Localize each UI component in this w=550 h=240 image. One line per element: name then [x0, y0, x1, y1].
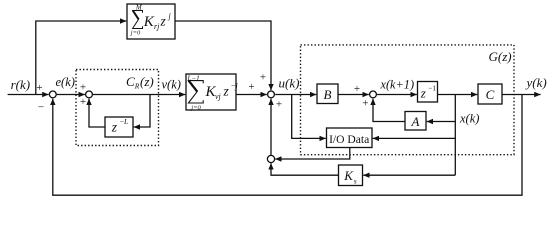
svg-text:rj: rj: [154, 22, 160, 31]
formula Kvj block: [187, 74, 239, 111]
block Ks: [339, 165, 363, 186]
svg-text:z: z: [111, 120, 118, 135]
svg-text:C: C: [126, 74, 135, 89]
svg-text:−j: −j: [231, 81, 239, 90]
wire Kvj output into S3: [236, 94, 267, 96]
formula Krj feedforward block: [130, 3, 172, 36]
svg-text:z: z: [420, 85, 426, 100]
block z^-L: [105, 117, 133, 137]
wire S5 output up into S3 bottom: [270, 99, 272, 155]
label block Ks: [343, 168, 357, 185]
svg-text:r(k): r(k): [11, 77, 31, 92]
wire x(k) branch down: [454, 95, 456, 176]
summing junction S3 u(k): [268, 91, 275, 98]
summing junction S2: [86, 91, 93, 98]
wire x(k) to Ks block: [363, 174, 455, 176]
svg-text:x(k+1): x(k+1): [380, 77, 415, 91]
wire r(k) input: [8, 94, 49, 96]
summing junction S4 state: [370, 91, 377, 98]
block Krj feedforward: [127, 4, 175, 39]
wire u(k) S3 to B block: [275, 94, 316, 96]
svg-text:vj: vj: [215, 92, 222, 101]
label block z^-1: [420, 83, 437, 100]
svg-text:j=0: j=0: [130, 30, 141, 37]
svg-text:+: +: [276, 99, 282, 111]
summing junction S5: [267, 155, 274, 162]
wire x(k) to I/O Data right: [373, 137, 456, 139]
wire Ks output left and up into S5 bottom: [271, 163, 339, 175]
wire x(k) to A block: [427, 121, 456, 123]
wire y(k) output: [502, 94, 541, 96]
svg-text:+: +: [80, 96, 86, 108]
svg-text:+: +: [248, 81, 254, 93]
wire feedforward output into summing junction S3 top: [175, 21, 271, 90]
svg-text:y(k): y(k): [525, 75, 547, 90]
svg-text:I/O Data: I/O Data: [329, 133, 369, 146]
svg-text:+: +: [36, 82, 42, 94]
summing junction S1: [49, 91, 56, 98]
svg-text:G(z): G(z): [489, 49, 512, 64]
svg-text:B: B: [324, 87, 332, 102]
wire x(k+1) S4 to z^-1 block: [377, 94, 417, 96]
svg-text:R: R: [134, 82, 140, 91]
wire I/O Data output down left into S5: [275, 148, 350, 160]
svg-text:A: A: [411, 114, 420, 129]
wire e(k) S1 to S2: [57, 94, 85, 96]
svg-text:K: K: [343, 168, 354, 183]
wire B output into S4: [338, 94, 369, 96]
block I/O Data: [327, 128, 373, 148]
svg-text:−L: −L: [120, 117, 128, 126]
svg-text:u(k): u(k): [279, 76, 300, 91]
block B: [317, 84, 338, 104]
svg-text:+: +: [354, 83, 360, 95]
svg-text:+: +: [362, 98, 368, 110]
label CR(z): [126, 74, 154, 91]
block Kvj sum: [186, 74, 236, 110]
svg-text:+: +: [260, 72, 266, 84]
svg-text:(z): (z): [140, 74, 154, 89]
block z^-1: [418, 82, 438, 103]
label block z^-L: [111, 117, 128, 135]
wire y(k) feedback branch to S1 bottom: [53, 95, 522, 196]
svg-text:M: M: [135, 3, 143, 11]
svg-text:−: −: [38, 102, 44, 114]
wire A output up into S4 bottom: [373, 99, 405, 122]
svg-text:e(k): e(k): [56, 75, 75, 89]
svg-text:v(k): v(k): [162, 78, 181, 92]
plant dotted box G(z): [301, 45, 515, 155]
svg-text:z: z: [223, 84, 230, 99]
svg-text:s: s: [354, 176, 357, 185]
svg-text:x(k): x(k): [459, 112, 479, 126]
svg-text:K: K: [143, 14, 155, 30]
svg-text:z: z: [160, 14, 167, 29]
wire delay feedback branch down into z^-L block: [134, 95, 150, 128]
block A: [405, 112, 426, 131]
svg-text:j=0: j=0: [190, 104, 201, 111]
svg-text:L−1: L−1: [187, 74, 200, 82]
wire u(k) branch down to I/O Data input: [292, 95, 326, 139]
controller dotted box CR(z): [76, 70, 159, 146]
wire branch r(k) to feedforward block: [36, 21, 127, 95]
block C: [478, 84, 502, 104]
wire v(k) S2 to Kvj block: [93, 94, 185, 96]
svg-text:−1: −1: [428, 83, 436, 92]
svg-text:C: C: [486, 87, 495, 102]
wire z^-L output up into S2 bottom: [89, 99, 105, 127]
wire z^-1 output into C block: [438, 94, 478, 96]
svg-text:+: +: [80, 82, 86, 94]
